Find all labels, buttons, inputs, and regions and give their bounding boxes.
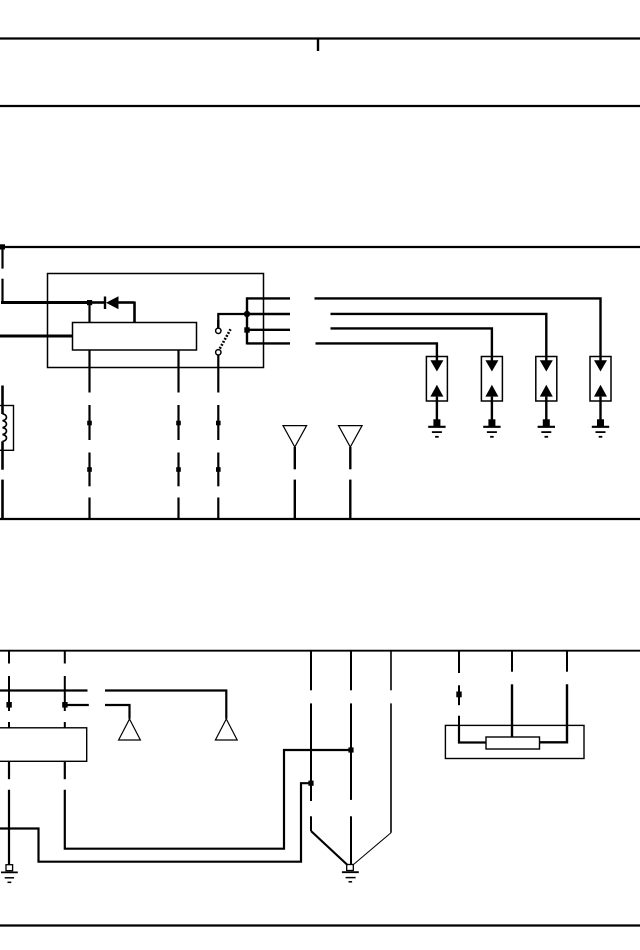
wire: middle dashed drop 2 — [350, 651, 352, 865]
ground: injector 1 — [428, 419, 445, 437]
sender case — [445, 725, 584, 758]
ground: injector 3 — [538, 419, 555, 437]
wire: feed line to injector 4 — [315, 298, 601, 356]
wire: junction down to coil block — [88, 303, 90, 324]
ground: center — [342, 865, 359, 882]
wire A: upper signal wire to arrow D — [0, 691, 226, 719]
node: junction square at diode anode wire — [87, 300, 92, 305]
wire B: lower signal wire to arrow C — [65, 705, 130, 719]
wire: top border line — [0, 37, 640, 39]
wire: feed to diode junction — [1, 301, 90, 304]
wire: relay pin 2 dashed drop — [177, 350, 179, 519]
connector arrow C (up triangle) — [119, 719, 141, 740]
wire: bottom border line — [0, 924, 640, 926]
wire: ECU bottom pin 1 — [8, 761, 10, 865]
wire: switch common to bus — [218, 314, 247, 328]
relay U1 case — [48, 274, 264, 368]
wire: feed line to injector 2 — [331, 328, 492, 356]
wire: switch pin dashed drop — [217, 355, 219, 519]
node A: junction dot on power bus — [0, 244, 5, 249]
resistor R1 — [486, 737, 540, 749]
wire: middle dashed drop 1 — [310, 651, 312, 831]
wire: dashed drop from node A — [1, 247, 3, 304]
wire: sender pin 1 inside case — [459, 726, 486, 743]
ground: ECU pin 1 — [1, 865, 18, 883]
wire: output bus vertical inside relay — [246, 297, 248, 344]
ground: injector 4 — [592, 419, 609, 437]
connector arrow D (up triangle) — [215, 719, 237, 740]
wire: output stub 3 — [247, 329, 290, 331]
wire: ECU bottom pin 2 to node E — [65, 750, 351, 849]
injector 1 — [426, 357, 447, 421]
wire: sender pin 2 (wiper) — [511, 651, 513, 737]
node: junction dot on sender pin 1 — [456, 692, 461, 698]
wire: thin diagonal to ground from drop 3 — [354, 833, 392, 865]
wire: feed line to injector 3 — [331, 314, 547, 357]
node: connector dots on switch pin — [216, 421, 221, 426]
node: square junction on output bus — [244, 327, 249, 332]
connector arrow B (down triangle) — [339, 426, 363, 447]
wire: second horizontal line — [0, 105, 640, 107]
wire: solenoid drop to bus — [1, 480, 4, 519]
wire: sender pin 3 — [540, 651, 567, 742]
injector 3 — [536, 357, 557, 421]
wire: power feed bus — [0, 246, 640, 248]
wire: lower loop wire to node F — [0, 783, 311, 862]
relay coil block — [73, 323, 197, 351]
wire: output stub 2 — [247, 313, 290, 315]
connector arrow A (down triangle) — [283, 426, 307, 447]
wire: drop from arrow B — [349, 447, 351, 519]
wire: ECU pin 2 dashed drop — [64, 651, 66, 728]
wire: diagonal to ground from drop 1 — [311, 831, 348, 865]
switch S1 contacts and blade — [216, 320, 231, 355]
wire: feed line to injector 1 — [316, 343, 437, 356]
node: junction dot on ECU pin 1 — [6, 702, 11, 708]
solenoid case — [0, 406, 14, 451]
wire: output stub 1 — [247, 297, 290, 299]
injector 2 — [481, 357, 502, 421]
injector 4 — [590, 357, 611, 421]
node: round junction on output bus — [244, 311, 250, 317]
node: junction dot on ECU pin 2 — [62, 702, 67, 708]
diode D1 — [90, 296, 135, 323]
wire: lower bus line — [0, 518, 640, 520]
wire: middle dashed drop 3 — [390, 651, 392, 833]
wire: sender pin 1 dashed drop — [458, 651, 460, 726]
wire: drop from arrow A — [294, 447, 296, 519]
solenoid L2 (left component) — [3, 386, 7, 470]
ECU case — [0, 728, 87, 762]
node: connector dots on relay pin 2 — [176, 421, 181, 426]
ground: injector 2 — [483, 419, 500, 437]
node F: junction dot — [308, 781, 313, 786]
node E: junction dot — [348, 747, 353, 752]
wire: ECU pin 1 dashed drop — [8, 651, 10, 728]
node: tick on top line — [317, 39, 319, 52]
wire: feed to relay coil — [0, 335, 73, 338]
node: connector dots on relay pin 1 — [87, 421, 92, 426]
wire: output stub 4 — [247, 342, 290, 344]
wire: relay pin 1 dashed drop — [88, 350, 90, 519]
wire: bottom section top line — [0, 650, 640, 652]
